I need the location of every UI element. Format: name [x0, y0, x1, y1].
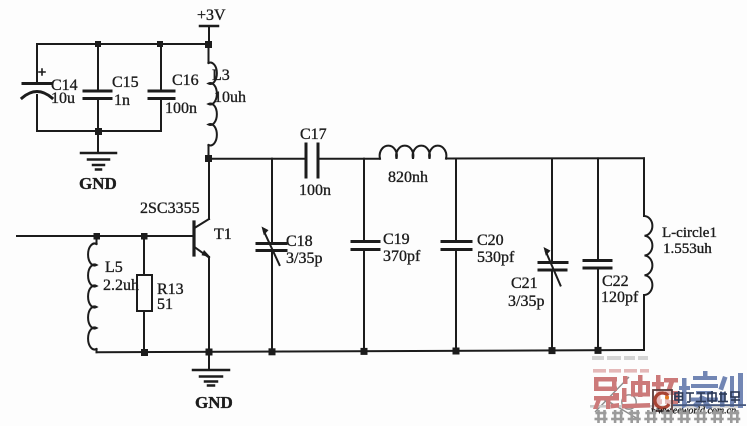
svg-text:C17: C17	[300, 126, 327, 143]
capacitor C18 3/35p variable	[257, 159, 322, 352]
node L5 top junction	[94, 233, 101, 240]
power +3V terminal	[197, 7, 226, 44]
svg-text:530pf: 530pf	[477, 249, 515, 266]
wire base input	[17, 235, 194, 237]
node collector junction	[205, 155, 212, 162]
svg-text:2.2uh: 2.2uh	[103, 277, 139, 294]
inductor L5 2.2uh	[88, 236, 139, 352]
capacitor C20 530pf	[442, 159, 515, 351]
svg-text:51: 51	[157, 296, 173, 313]
capacitor C15	[84, 44, 139, 131]
svg-text:1n: 1n	[114, 92, 130, 109]
node GND1 junction	[95, 128, 102, 135]
svg-text:C21: C21	[511, 275, 538, 292]
node C21 bottom junction	[549, 347, 556, 354]
svg-text:120pf: 120pf	[601, 289, 639, 306]
ground GND1	[79, 131, 117, 193]
svg-text:10u: 10u	[51, 90, 75, 107]
node R13 top junction	[141, 233, 148, 240]
inductor L3 10uh	[209, 44, 247, 159]
watermark gray bottom text	[595, 410, 741, 423]
node L3 top junction	[205, 41, 212, 48]
wire capacitor-block bottom rail	[37, 130, 161, 132]
watermark navy text 6	[675, 391, 740, 403]
inductor 820nh	[380, 146, 447, 186]
watermark red char 1	[593, 377, 619, 409]
watermark light divider bar	[590, 405, 743, 408]
svg-text:C16: C16	[172, 72, 199, 89]
svg-text:3/35p: 3/35p	[508, 293, 544, 310]
svg-text:L-circle1: L-circle1	[662, 225, 717, 241]
wire top rail	[37, 43, 208, 45]
wire bottom rail	[97, 350, 645, 352]
svg-text:100n: 100n	[299, 182, 331, 199]
capacitor C16	[149, 44, 199, 131]
watermark red char 2	[622, 375, 650, 409]
capacitor C21 3/35p variable	[508, 159, 567, 351]
svg-text:10uh: 10uh	[214, 89, 246, 106]
transistor T1 2SC3355	[140, 159, 232, 352]
svg-text:GND: GND	[79, 174, 117, 193]
wire main rail left segment	[209, 158, 307, 160]
svg-text:T1: T1	[214, 226, 232, 243]
svg-text:L3: L3	[212, 67, 230, 84]
node C15 top junction	[95, 41, 101, 47]
node C16 top junction	[157, 41, 163, 47]
svg-text:3/35p: 3/35p	[286, 250, 322, 267]
node C22 bottom junction	[595, 347, 602, 354]
svg-text:1.553uh: 1.553uh	[663, 241, 712, 257]
wire main rail middle segment	[318, 158, 380, 160]
svg-text:C20: C20	[477, 232, 504, 249]
svg-text:370pf: 370pf	[383, 248, 421, 265]
watermark blue char 5	[719, 373, 744, 408]
svg-text:GND: GND	[195, 393, 233, 412]
watermark faint pink url	[593, 369, 649, 373]
watermark blue char 4	[679, 371, 718, 409]
wire main rail right segment	[446, 157, 644, 159]
ground GND2	[193, 352, 233, 412]
svg-text:C19: C19	[383, 231, 410, 248]
watermark navy underline	[673, 404, 746, 406]
watermark	[590, 356, 746, 423]
watermark red char 3	[652, 375, 678, 408]
watermark swoosh logo	[595, 377, 638, 419]
svg-text:+3V: +3V	[197, 7, 226, 24]
node R13 bottom junction	[141, 349, 148, 356]
inductor L-circle1 1.553uh	[644, 158, 717, 350]
node C18 bottom junction	[269, 348, 276, 355]
capacitor C22 120pf	[584, 158, 639, 350]
svg-text:2SC3355: 2SC3355	[140, 200, 200, 217]
svg-text:100n: 100n	[165, 100, 197, 117]
resistor R13 51	[137, 236, 184, 352]
svg-text:C15: C15	[112, 74, 139, 91]
svg-text:C22: C22	[602, 273, 629, 290]
node emitter GND junction	[206, 349, 213, 356]
svg-text:L5: L5	[105, 259, 123, 276]
watermark logo eeworld box	[653, 390, 672, 411]
watermark faint url line	[592, 356, 648, 360]
capacitor C17 100n	[299, 126, 331, 199]
node C20 bottom junction	[453, 348, 460, 355]
capacitor C19 370pf	[352, 159, 421, 352]
svg-text:C18: C18	[286, 233, 313, 250]
svg-text:820nh: 820nh	[388, 169, 428, 186]
capacitor C14	[22, 44, 78, 131]
node C19 bottom junction	[361, 348, 368, 355]
